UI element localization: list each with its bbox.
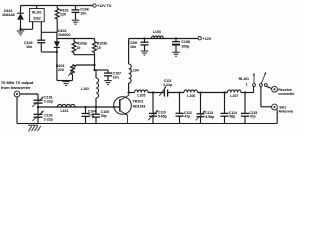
svg-text:70 MHz TX output: 70 MHz TX output [1, 80, 34, 85]
svg-text:220: 220 [60, 13, 66, 17]
svg-text:RL101: RL101 [32, 11, 42, 15]
wire to relay contact [253, 86, 255, 92]
node collector junction [127, 91, 129, 93]
svg-text:15: 15 [97, 46, 101, 50]
ground (bus) [28, 125, 41, 131]
svg-text:56p: 56p [229, 115, 235, 119]
label 70 MHz TX output from transverter [1, 80, 34, 90]
svg-text:RL101: RL101 [239, 77, 249, 81]
capacitor C114 56p [221, 91, 237, 123]
svg-text:15: 15 [77, 46, 81, 50]
wire node to wiper level [93, 53, 95, 71]
svg-text:from transverter: from transverter [1, 85, 31, 90]
svg-text:1N4002: 1N4002 [58, 33, 70, 37]
svg-text:2-22p: 2-22p [44, 118, 54, 122]
capacitor C112 47p [176, 91, 192, 123]
svg-text:5-65p: 5-65p [158, 114, 167, 118]
capacitor C115 47p [241, 91, 257, 123]
svg-text:+12V TX: +12V TX [97, 4, 112, 8]
trimmer C113 5-56p [196, 91, 214, 123]
svg-text:20p: 20p [101, 114, 107, 118]
svg-text:L104: L104 [131, 69, 139, 73]
svg-text:10n: 10n [80, 11, 87, 15]
wire coil return to D101 [19, 28, 32, 30]
wire main line segment 4 [198, 92, 228, 94]
wire main line segment 5 [241, 92, 254, 94]
svg-text:2-22p: 2-22p [44, 100, 54, 104]
wire base line [37, 106, 120, 108]
terminal +12V [198, 37, 212, 41]
svg-text:5-56p: 5-56p [205, 115, 214, 119]
ground (C107) [104, 81, 112, 85]
wire bias bus left [41, 31, 57, 33]
transistor TR101 SD1143 [114, 93, 146, 124]
svg-text:10n: 10n [130, 45, 137, 49]
inductor L101 [58, 104, 76, 112]
svg-text:1N4148: 1N4148 [2, 13, 14, 17]
diode D102 1N4002 [54, 29, 71, 80]
wire ground bus [17, 123, 277, 125]
wire +12V bus [129, 38, 198, 40]
svg-text:L107: L107 [230, 94, 238, 98]
capacitor C109 10n [128, 37, 148, 50]
node C110 tap [152, 91, 154, 93]
resistor R101 220 [55, 6, 68, 33]
trimmer C111 2-22p (series) [159, 79, 173, 96]
svg-text:TR101: TR101 [133, 100, 144, 104]
inductor L107 [228, 90, 242, 98]
svg-text:C108: C108 [181, 40, 190, 44]
wire input to C101 [20, 93, 38, 95]
trimmer C110 5-65p [148, 93, 166, 124]
wire wiper to node [76, 64, 94, 66]
svg-text:220: 220 [58, 68, 64, 72]
wire relay box to bias bus [40, 22, 42, 33]
wire main line segment 2 [148, 92, 164, 94]
wire main line segment 3 [168, 92, 184, 94]
svg-text:L103: L103 [153, 30, 161, 34]
svg-text:+12V: +12V [203, 37, 212, 41]
capacitor C108 100µ [172, 37, 190, 51]
svg-text:converter: converter [278, 92, 295, 96]
inductor L106 [184, 90, 198, 98]
wire input shield to ground [16, 97, 18, 124]
svg-text:L105: L105 [137, 94, 145, 98]
svg-text:10n: 10n [113, 75, 120, 79]
terminal receive converter [272, 86, 295, 96]
capacitor C105 20p [92, 106, 109, 124]
trimmer C102 2-22p [32, 111, 53, 124]
ground (bias network) [62, 82, 70, 86]
wire +12V TX top rail [21, 5, 93, 7]
capacitor C103 10n [24, 32, 45, 52]
input connector [14, 91, 20, 97]
ground (C106) [72, 20, 80, 24]
inductor L102 [81, 70, 99, 107]
wire R103a/R103b bottom [74, 54, 95, 56]
diode D101 1N4148 [2, 6, 24, 30]
svg-text:L106: L106 [187, 94, 195, 98]
capacitor C107 10n [104, 70, 121, 80]
wire contact to antenna [261, 86, 272, 106]
svg-text:2-22p: 2-22p [163, 83, 173, 87]
resistor R103a 15 [72, 39, 88, 55]
svg-text:SD1143: SD1143 [133, 104, 146, 108]
capacitor C106 10n [72, 6, 89, 20]
svg-text:L101: L101 [61, 109, 69, 113]
svg-text:1: 1 [246, 82, 248, 86]
inductor L105 [135, 90, 149, 98]
wire C103 to D102 node [41, 51, 57, 53]
trimmer C101 2-22p [32, 94, 53, 114]
ground (C109) [141, 51, 149, 55]
terminal SK1 antenna [272, 104, 294, 113]
capacitor C104 27p [82, 106, 96, 124]
ground (C108) [172, 52, 180, 56]
inductor L103 [152, 30, 164, 39]
svg-text:L102: L102 [81, 87, 89, 91]
svg-text:47p: 47p [250, 115, 256, 119]
terminal +12V TX [93, 4, 112, 8]
wire ground run (bias) [57, 80, 73, 82]
preset R103 220 [56, 64, 76, 81]
inductor L104 [129, 39, 139, 93]
svg-text:47p: 47p [184, 115, 190, 119]
svg-text:10n: 10n [26, 45, 33, 49]
ground (D101/relay) [17, 31, 25, 35]
svg-text:32S2: 32S2 [33, 17, 41, 21]
wire antenna shield to ground [276, 110, 278, 124]
wire main line segment 1 [129, 92, 135, 94]
relay coil RL101 32S2 [30, 6, 45, 30]
resistor R103b 15 [93, 39, 108, 53]
wire node to C107 [93, 69, 108, 71]
svg-text:Antenna: Antenna [279, 109, 294, 113]
wire contact to receive [266, 86, 272, 88]
wire bias bus right [57, 38, 95, 40]
relay contacts RL101/1 [239, 72, 268, 86]
svg-text:100µ: 100µ [181, 45, 189, 49]
